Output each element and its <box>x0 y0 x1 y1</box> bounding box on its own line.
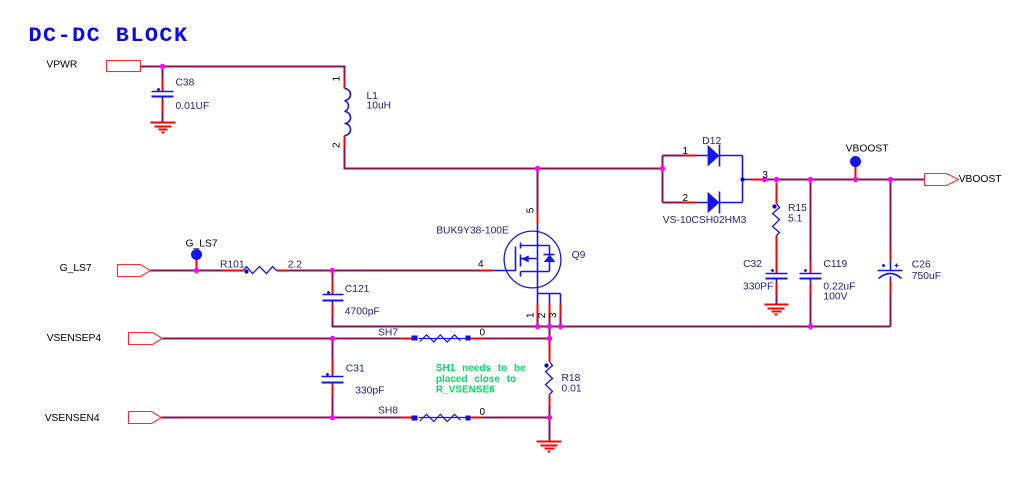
svg-text:100V: 100V <box>823 292 847 303</box>
svg-text:VBOOST: VBOOST <box>846 144 890 155</box>
svg-text:2: 2 <box>683 193 689 204</box>
svg-text:VSENSEP4: VSENSEP4 <box>47 333 102 344</box>
svg-text:330pF: 330pF <box>355 385 384 396</box>
svg-text:R_VSENSE6: R_VSENSE6 <box>436 384 495 395</box>
svg-text:placed close to: placed close to <box>436 374 516 385</box>
svg-text:Q9: Q9 <box>572 250 586 261</box>
svg-text:2: 2 <box>537 312 548 318</box>
svg-text:R101: R101 <box>220 259 245 270</box>
svg-text:SH8: SH8 <box>378 406 398 417</box>
svg-text:4: 4 <box>478 259 484 270</box>
svg-text:BUK9Y38-100E: BUK9Y38-100E <box>436 226 509 237</box>
svg-text:C31: C31 <box>346 364 365 375</box>
svg-text:VBOOST: VBOOST <box>959 174 1003 185</box>
svg-text:3: 3 <box>548 312 559 318</box>
svg-text:VPWR: VPWR <box>46 60 77 71</box>
svg-text:VSENSEN4: VSENSEN4 <box>45 413 100 424</box>
svg-text:1: 1 <box>683 146 689 157</box>
svg-text:SH1 needs to be: SH1 needs to be <box>436 363 526 374</box>
svg-text:G_LS7: G_LS7 <box>60 263 92 274</box>
svg-text:SH7: SH7 <box>378 327 398 338</box>
svg-text:1: 1 <box>525 312 536 318</box>
svg-text:R18: R18 <box>562 373 581 384</box>
svg-text:C38: C38 <box>176 77 195 88</box>
svg-text:C32: C32 <box>743 259 762 270</box>
svg-text:0: 0 <box>480 407 486 418</box>
svg-text:G_LS7: G_LS7 <box>186 239 218 250</box>
svg-text:0: 0 <box>480 327 486 338</box>
svg-text:5.1: 5.1 <box>788 214 803 225</box>
svg-text:2: 2 <box>332 142 343 148</box>
svg-text:330PF: 330PF <box>743 281 773 292</box>
svg-text:5: 5 <box>525 207 536 213</box>
svg-text:D12: D12 <box>702 136 721 147</box>
svg-text:2.2: 2.2 <box>288 259 303 270</box>
svg-text:R15: R15 <box>788 203 807 214</box>
svg-text:VS-10CSH02HM3: VS-10CSH02HM3 <box>663 215 747 226</box>
svg-text:C121: C121 <box>345 284 370 295</box>
svg-text:10uH: 10uH <box>367 101 392 112</box>
svg-text:C119: C119 <box>823 259 847 270</box>
svg-text:0.01UF: 0.01UF <box>176 101 210 112</box>
svg-text:0.01: 0.01 <box>562 384 582 395</box>
svg-text:DC-DC BLOCK: DC-DC BLOCK <box>29 25 189 48</box>
svg-text:750uF: 750uF <box>912 271 941 282</box>
svg-text:C26: C26 <box>912 260 931 271</box>
svg-text:1: 1 <box>332 76 343 82</box>
svg-text:4700pF: 4700pF <box>345 307 380 318</box>
svg-text:3: 3 <box>762 170 768 181</box>
